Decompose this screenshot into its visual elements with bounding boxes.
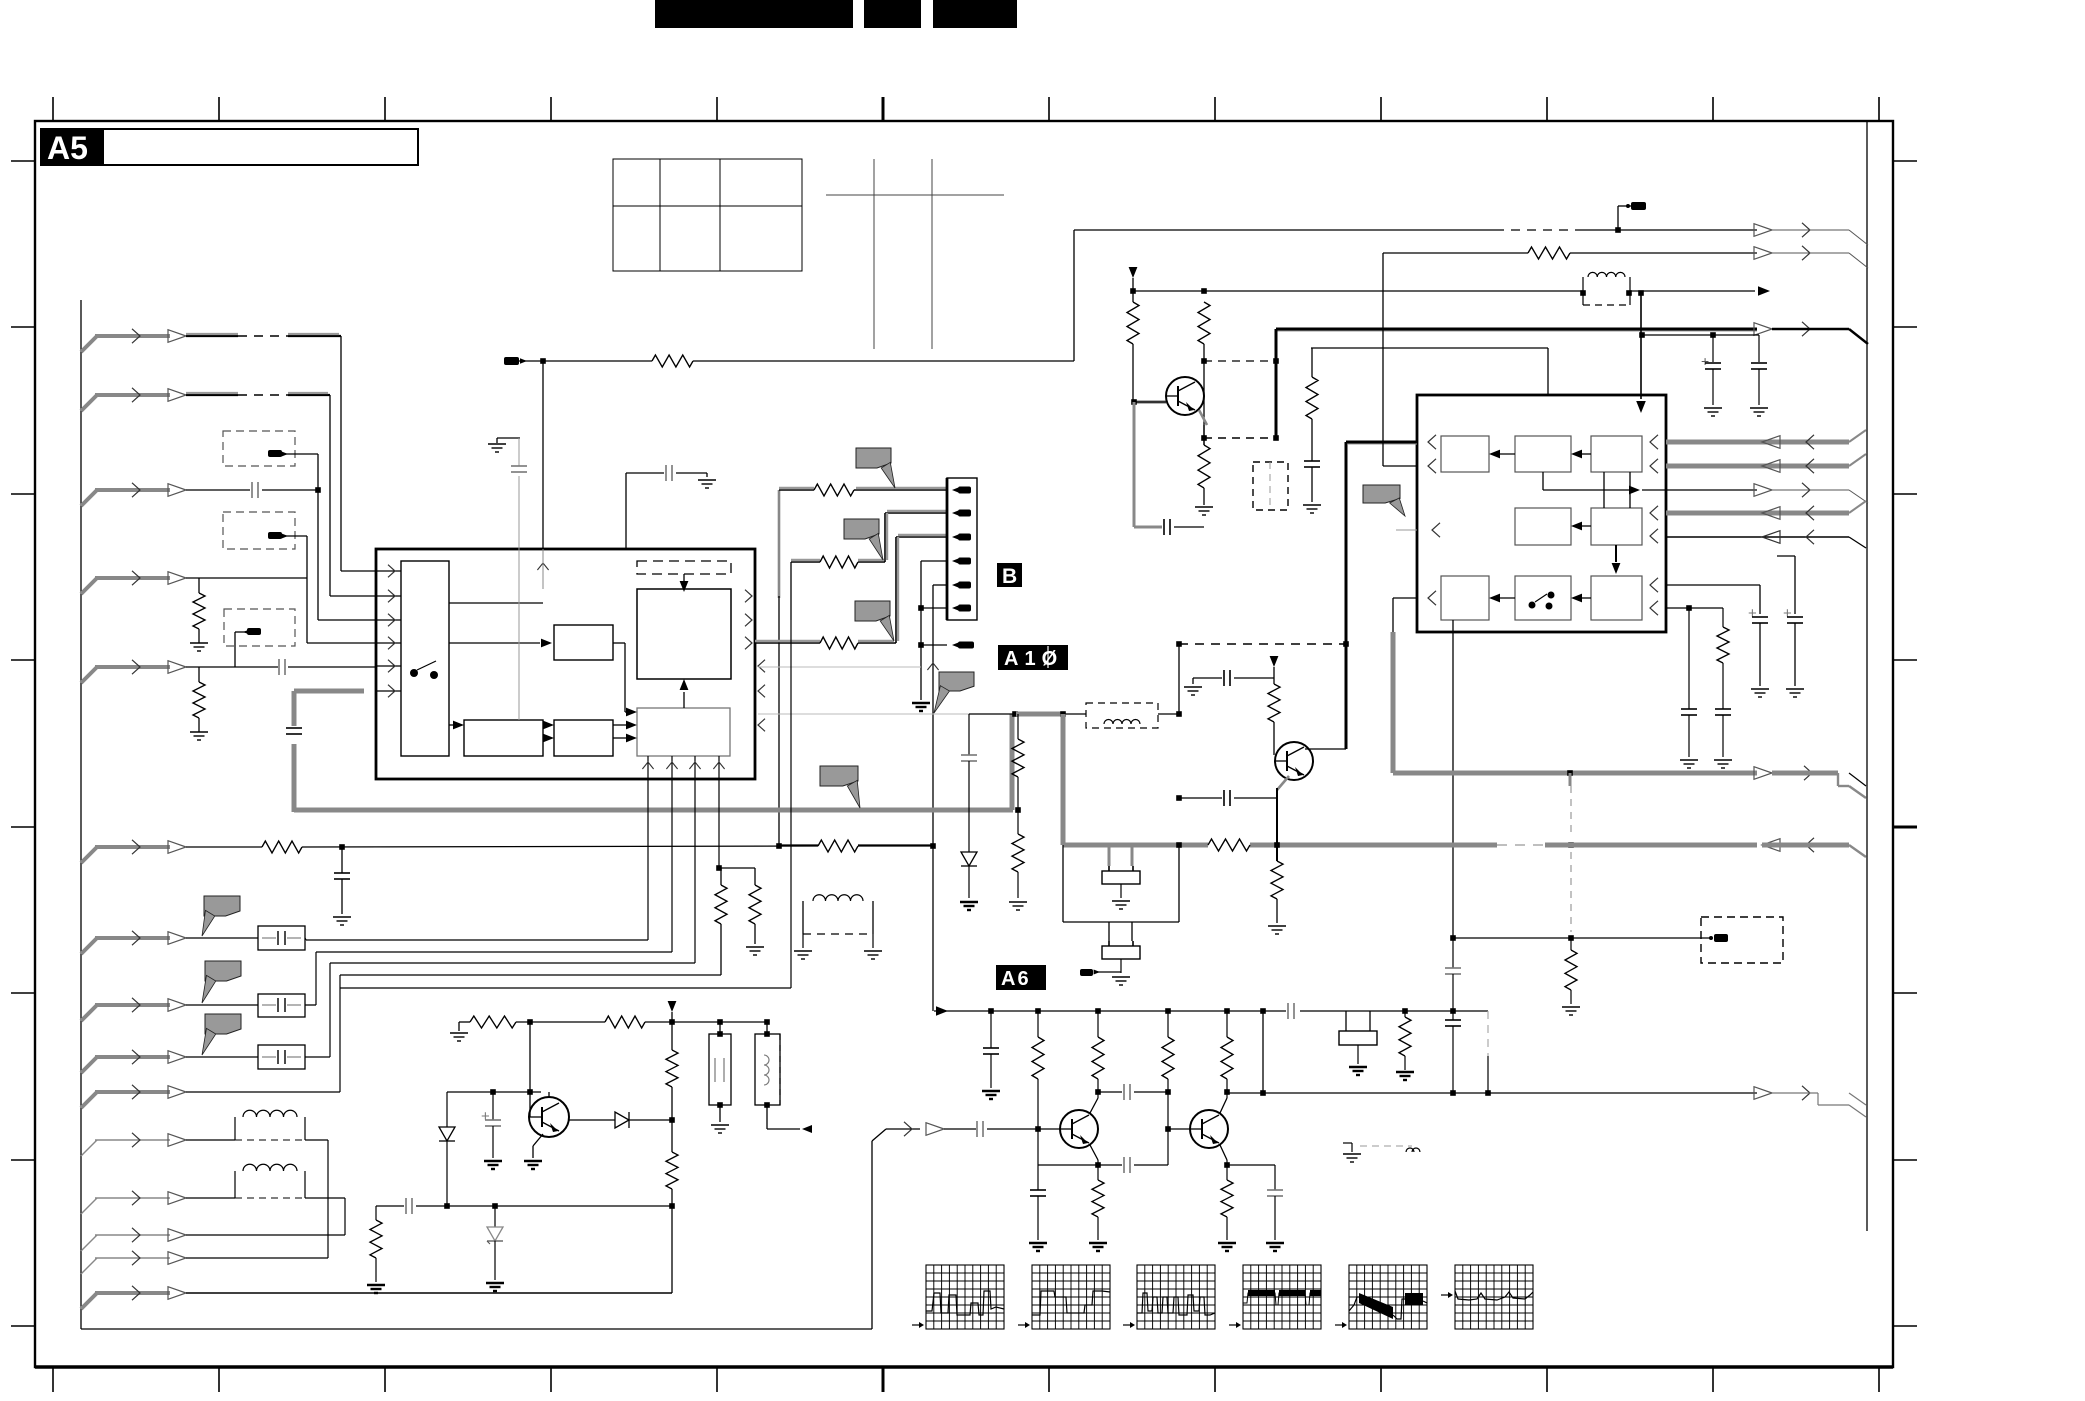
U1 top pin with gray feed — [519, 361, 549, 720]
crystal X3 — [1339, 1011, 1377, 1075]
A6 bias resistors — [1032, 1011, 1233, 1079]
cap in Q2 emitter row — [1176, 790, 1277, 806]
electrolytic cap x493 — [481, 1092, 502, 1169]
oscillogram grid 3 — [1123, 1265, 1215, 1329]
oscillogram grid 2 — [1018, 1265, 1110, 1329]
U2 bottom pin wire x1453 — [1452, 620, 1454, 938]
rail y1022 — [450, 1019, 770, 1041]
wire net y230 to right edge — [1074, 223, 1868, 245]
diode x447 — [439, 1092, 455, 1209]
capacitor on y667 line — [278, 659, 280, 675]
transistor Q2 — [1275, 742, 1313, 780]
svg-text:B: B — [1002, 565, 1017, 588]
wire net y667 to IC pin — [186, 667, 376, 682]
Q3 output diode — [569, 1112, 675, 1128]
capacitor in gray y527 wire — [1163, 519, 1165, 535]
oscillogram grid 5 — [1335, 1265, 1427, 1329]
Q2 emitter net — [1274, 776, 1289, 861]
dashed wire y644 — [1176, 641, 1346, 714]
U1 core sub-block — [637, 589, 731, 679]
Q2 base wire — [1273, 722, 1275, 755]
svg-text:A6: A6 — [1001, 968, 1031, 990]
svg-text:+: + — [1701, 353, 1709, 369]
resistor in y361 wire — [652, 355, 693, 367]
pin stub in box 1 — [268, 450, 318, 490]
riser x530 — [529, 1022, 531, 1117]
revision table — [613, 159, 802, 271]
dashed link y773 to y938 — [1568, 773, 1574, 932]
U2 pin arrows left edge — [1428, 435, 1440, 605]
inductor box mid-bottom — [794, 895, 882, 959]
right edge gray bus input y466 — [1666, 454, 1866, 473]
label A6 — [996, 965, 1046, 990]
parallel LC box 2 — [755, 1022, 812, 1133]
gray bus from U1 left pin — [294, 691, 1013, 812]
coil box on y1140 — [186, 1110, 328, 1258]
x672 bottom link — [669, 1189, 675, 1293]
connector CN-B body — [947, 478, 977, 620]
IC U2 outline — [1417, 395, 1666, 632]
gray riser x1063 — [1061, 714, 1066, 845]
frame tick marks top — [53, 97, 1879, 121]
long bus wire y1294 — [186, 1292, 672, 1294]
resistor x376 — [367, 1206, 385, 1293]
U1 bottom sub-block a — [464, 720, 543, 756]
U1 input select sub-block — [401, 561, 449, 756]
callout flag on y810 bus — [820, 766, 858, 786]
right edge gray bus input y513 — [1666, 501, 1866, 520]
sheet label A5 — [40, 128, 103, 166]
U2 internal arrows row1 — [1489, 450, 1591, 459]
gray riser x779 — [778, 490, 781, 845]
dashed option box 3 — [224, 609, 295, 646]
Q4 collector net — [1090, 1079, 1171, 1113]
test point pin TP above U1 — [504, 357, 527, 365]
wire row to pin2 y513 — [791, 511, 947, 620]
dashed connector box bottom right — [1701, 917, 1783, 963]
wire y348 into U2 top — [1311, 348, 1548, 395]
cap x1038 to ground — [1029, 1190, 1047, 1251]
gray flag at U2 left — [1363, 485, 1400, 503]
oscillogram grid 1 — [912, 1265, 1004, 1329]
crystal X2 — [1102, 922, 1140, 985]
supply arrow Q3 rail — [668, 1001, 677, 1050]
wire net y361 — [519, 230, 1074, 364]
capacitor to ground on y846 — [333, 847, 351, 925]
coordinate cross grid — [826, 159, 1004, 349]
pin5 signal net down to A6 — [927, 585, 947, 1011]
pin in dashed box — [1709, 934, 1728, 942]
U2 left gray wire y530 — [1396, 529, 1417, 531]
inductor filter box A10 input — [1086, 703, 1158, 728]
rail wire y291 — [1130, 288, 1583, 294]
U1 right output arrows — [745, 590, 752, 650]
U1 dashed top rect — [637, 561, 731, 574]
feedback branch x1263 — [1262, 1011, 1264, 1093]
resistor in y846 line (right) — [818, 840, 858, 852]
wire net y490 — [186, 489, 250, 491]
wire row to pin3 y537 — [755, 535, 947, 643]
wire y335 with decoupling caps — [1639, 332, 1768, 416]
resistor row1 — [814, 484, 854, 496]
title redaction bar 1 — [655, 0, 853, 28]
cap between emitters — [1098, 1157, 1168, 1173]
U2 bottom gray bus x1393 — [1391, 632, 1396, 773]
wire row to pin1 y490 — [779, 488, 947, 490]
transistor Q4 — [1060, 1110, 1098, 1148]
coil box on y1198 — [186, 1164, 345, 1235]
svg-text:A5: A5 — [47, 130, 88, 166]
resistor Q4 emitter — [1089, 1180, 1107, 1251]
top-right supply pin group — [1580, 272, 1770, 305]
cap + diode branch x969 — [960, 714, 978, 910]
U2 pin arrows right edge — [1650, 435, 1658, 615]
gray bus y845 (A10 output bus) — [1063, 838, 1866, 857]
transistor Q5 — [1190, 1110, 1228, 1148]
Q5 collector net — [1220, 1079, 1866, 1117]
resistor in y846 line (left) — [262, 841, 302, 853]
bus entry arrows (left edge) — [81, 329, 186, 1309]
dashed feedback branch x1488 — [1485, 1011, 1491, 1096]
U2 sub-block r3c3 — [1591, 576, 1642, 620]
dashed option box 2 — [223, 512, 295, 549]
resistor right of Q1 — [1303, 348, 1321, 513]
callout flag row3 — [855, 601, 890, 621]
wire net y846 (long horizontal) — [186, 843, 936, 850]
Q2 collector to bus — [1305, 641, 1349, 749]
frame tick marks left — [11, 161, 35, 1326]
isolated pin below connector — [921, 642, 974, 649]
switch icon in U2 r3c2 — [1529, 592, 1555, 610]
pin stub in box 3 — [235, 628, 261, 667]
capacitor x1453 below rail — [1445, 1011, 1461, 1096]
resistor x1405 — [1396, 1011, 1414, 1080]
oscillogram grid 6 — [1441, 1265, 1533, 1329]
U2 column link r1-r2 — [1604, 472, 1630, 508]
switch symbol inside U1 — [410, 661, 438, 679]
wire net y578 — [186, 536, 307, 643]
U2 sub-block r1c1 — [1441, 436, 1489, 472]
capacitor to ground right of U1 top — [626, 465, 716, 549]
resistor rail left — [470, 1016, 516, 1028]
wire y938 with parts — [1445, 935, 1712, 1011]
crystal filter box on y1005 — [186, 994, 316, 1017]
wire y560 with electrolytic cap — [1777, 556, 1804, 697]
right edge input y537 — [1666, 530, 1866, 548]
resistor on y578 net — [193, 593, 205, 629]
U1 right input arrows — [758, 660, 765, 732]
Q5 emitter net — [1220, 1145, 1275, 1180]
callout flag near A10 — [939, 672, 974, 691]
U2 sub-block r1c3 — [1591, 436, 1642, 472]
resistor pair below U1 — [715, 868, 764, 975]
Q4 emitter net — [1038, 1129, 1101, 1190]
wire net y395 — [186, 393, 330, 596]
U2 left gray wire y598 to A10 bus — [1393, 598, 1417, 632]
crystal filter box on y1057 — [186, 1045, 330, 1069]
lower loop wires — [1063, 842, 1182, 922]
dashed option box 1 — [223, 431, 295, 466]
callout flag entry y1057 — [205, 1014, 241, 1034]
callout flag row2 — [844, 519, 879, 539]
IC U1 main block outline — [376, 549, 755, 779]
callout flag entry y938 — [204, 896, 240, 916]
U2 sub-block r2c3 — [1591, 508, 1642, 545]
callout flag row1 — [856, 448, 891, 468]
wire y714 — [969, 711, 1182, 717]
resistor x672 lower — [666, 1152, 678, 1189]
pin stub in box 2 — [268, 532, 307, 539]
resistor below y938 — [1562, 950, 1580, 1015]
wire y1258 — [186, 1257, 328, 1259]
callout flag entry y1005 — [205, 961, 241, 981]
resistor in gray bus y845 — [1208, 839, 1250, 851]
U1 bottom pins going down — [642, 756, 724, 779]
crystal X1 on bus — [1102, 847, 1140, 909]
A6 rail start arrow — [934, 1003, 1488, 1019]
wire y608 with caps and resistor — [1666, 605, 1732, 768]
Q5 base net — [1165, 1079, 1190, 1165]
Q2 base cap to ground — [1184, 670, 1274, 695]
wire y1092 from entry — [186, 1091, 340, 1093]
ground + capacitor left of U1 top — [488, 438, 527, 472]
U2 internal arrows row2 — [1571, 522, 1591, 531]
Q1 base net — [1131, 344, 1166, 405]
U1 left pin arrows — [307, 565, 401, 698]
supply arrow for Q1 — [1129, 267, 1138, 302]
test point pin at y206 — [1618, 202, 1646, 230]
svg-text:A1Ø: A1Ø — [1004, 648, 1063, 670]
x672 mid link — [671, 1087, 673, 1152]
resistor row2 — [820, 556, 858, 568]
drawing frame border — [35, 121, 1893, 1367]
ground for y667 resistor — [190, 718, 208, 740]
U2 left exit bus y442 — [1346, 442, 1417, 644]
svg-text:+: + — [481, 1108, 490, 1125]
transistor Q3 — [529, 1097, 569, 1137]
svg-text:+: + — [1748, 605, 1757, 622]
resistor Q2 emitter — [1268, 861, 1286, 934]
resistor R (Q1 collector) — [1198, 302, 1210, 344]
U2 sub-block r2c2 — [1515, 508, 1571, 545]
wire y1092 Q3 — [447, 1089, 541, 1095]
label B — [997, 563, 1022, 588]
test pin near X2 — [1080, 969, 1121, 976]
thick bus y329 to right edge — [1276, 322, 1868, 438]
U2 output y490 — [1543, 472, 1666, 494]
frame tick marks right — [1893, 161, 1917, 1326]
U2 sub-block r1c2 — [1515, 436, 1571, 472]
Q3 emitter ground — [524, 1134, 543, 1169]
U2 top entry arrow — [1636, 291, 1646, 413]
U1 internal wiring — [449, 603, 688, 742]
gray bus out y773 — [1393, 766, 1866, 798]
resistor row3 — [820, 637, 858, 649]
nested wires from U1 bottom pins — [306, 620, 791, 1092]
wire net y336 — [186, 334, 341, 571]
cap x1275 to ground — [1266, 1165, 1284, 1251]
inner border line left — [80, 300, 82, 1329]
transistor Q1 — [1166, 377, 1204, 415]
wire y490 cont — [262, 487, 321, 620]
arrow into U1 main core — [680, 574, 689, 592]
U2 link r2-r3 with arrow — [1612, 545, 1621, 574]
Q3 top lead — [548, 1092, 550, 1097]
ground with dashed link bottom right of A6 — [1343, 1143, 1420, 1162]
U2 left wire y466 up to y253 out — [1383, 246, 1868, 466]
capacitor on y490 line — [251, 482, 253, 498]
right edge gray bus input y442 — [1666, 430, 1866, 449]
sheet title box (blank) — [103, 129, 418, 165]
wire y1235 — [186, 1234, 345, 1236]
inner border line right — [1866, 121, 1868, 1231]
resistor on y667 net — [193, 682, 205, 718]
supply arrow Q2 — [1270, 656, 1279, 684]
Q1 collector net with dashed link — [1201, 344, 1279, 445]
cap x991 to ground — [982, 1011, 1000, 1099]
wire y585 with electrolytic cap — [1666, 585, 1769, 697]
gray wire from Q1 base down — [1134, 402, 1204, 527]
U1 bottom sub-block b — [554, 720, 613, 756]
resistor R (Q1 base bias left) — [1127, 302, 1139, 344]
right edge out y490 — [1666, 483, 1868, 503]
crystal filter box on y938 — [186, 926, 306, 950]
wire y1206 — [376, 1198, 672, 1214]
frame tick marks bottom — [53, 1367, 1879, 1392]
U2 internal arrows row3 — [1489, 594, 1591, 603]
pin4 ground net — [912, 561, 947, 711]
label A10 — [998, 645, 1068, 670]
title redaction bar 2 — [864, 0, 921, 28]
input cap to T4 base — [944, 1079, 1060, 1137]
bottom wire y1329 to A6 input — [81, 1122, 944, 1329]
ground Q1 emitter — [1195, 488, 1213, 515]
svg-text:+: + — [1783, 605, 1792, 622]
wire y845 mid section — [779, 844, 933, 846]
resistor rail mid — [605, 1016, 645, 1028]
capacitor in gray bus vertical — [286, 726, 302, 744]
title redaction bar 3 — [933, 0, 1017, 28]
parallel RC box 1 — [709, 1022, 731, 1133]
connector pins — [952, 487, 971, 612]
U1 center sub-block — [554, 625, 613, 660]
resistor chain x1018 — [1009, 714, 1027, 910]
Q1 emitter net — [1199, 410, 1279, 445]
resistor Q1 emitter — [1198, 445, 1210, 488]
dashed component box below Q1 — [1253, 462, 1288, 510]
resistor Q5 emitter — [1218, 1180, 1236, 1251]
U2 sub-block r3c2 (switch) — [1515, 576, 1571, 620]
resistor Q2 base — [1268, 684, 1280, 722]
faint feed wires to U1 right — [758, 667, 969, 714]
ground for y578 resistor — [190, 629, 208, 651]
oscillogram grid 4 — [1229, 1265, 1321, 1329]
U2 sub-block r3c1 — [1441, 576, 1489, 620]
zener diode x495 — [486, 1206, 504, 1291]
U1 bottom-right sub-block — [637, 708, 730, 756]
resistor x672 upper — [666, 1050, 678, 1087]
